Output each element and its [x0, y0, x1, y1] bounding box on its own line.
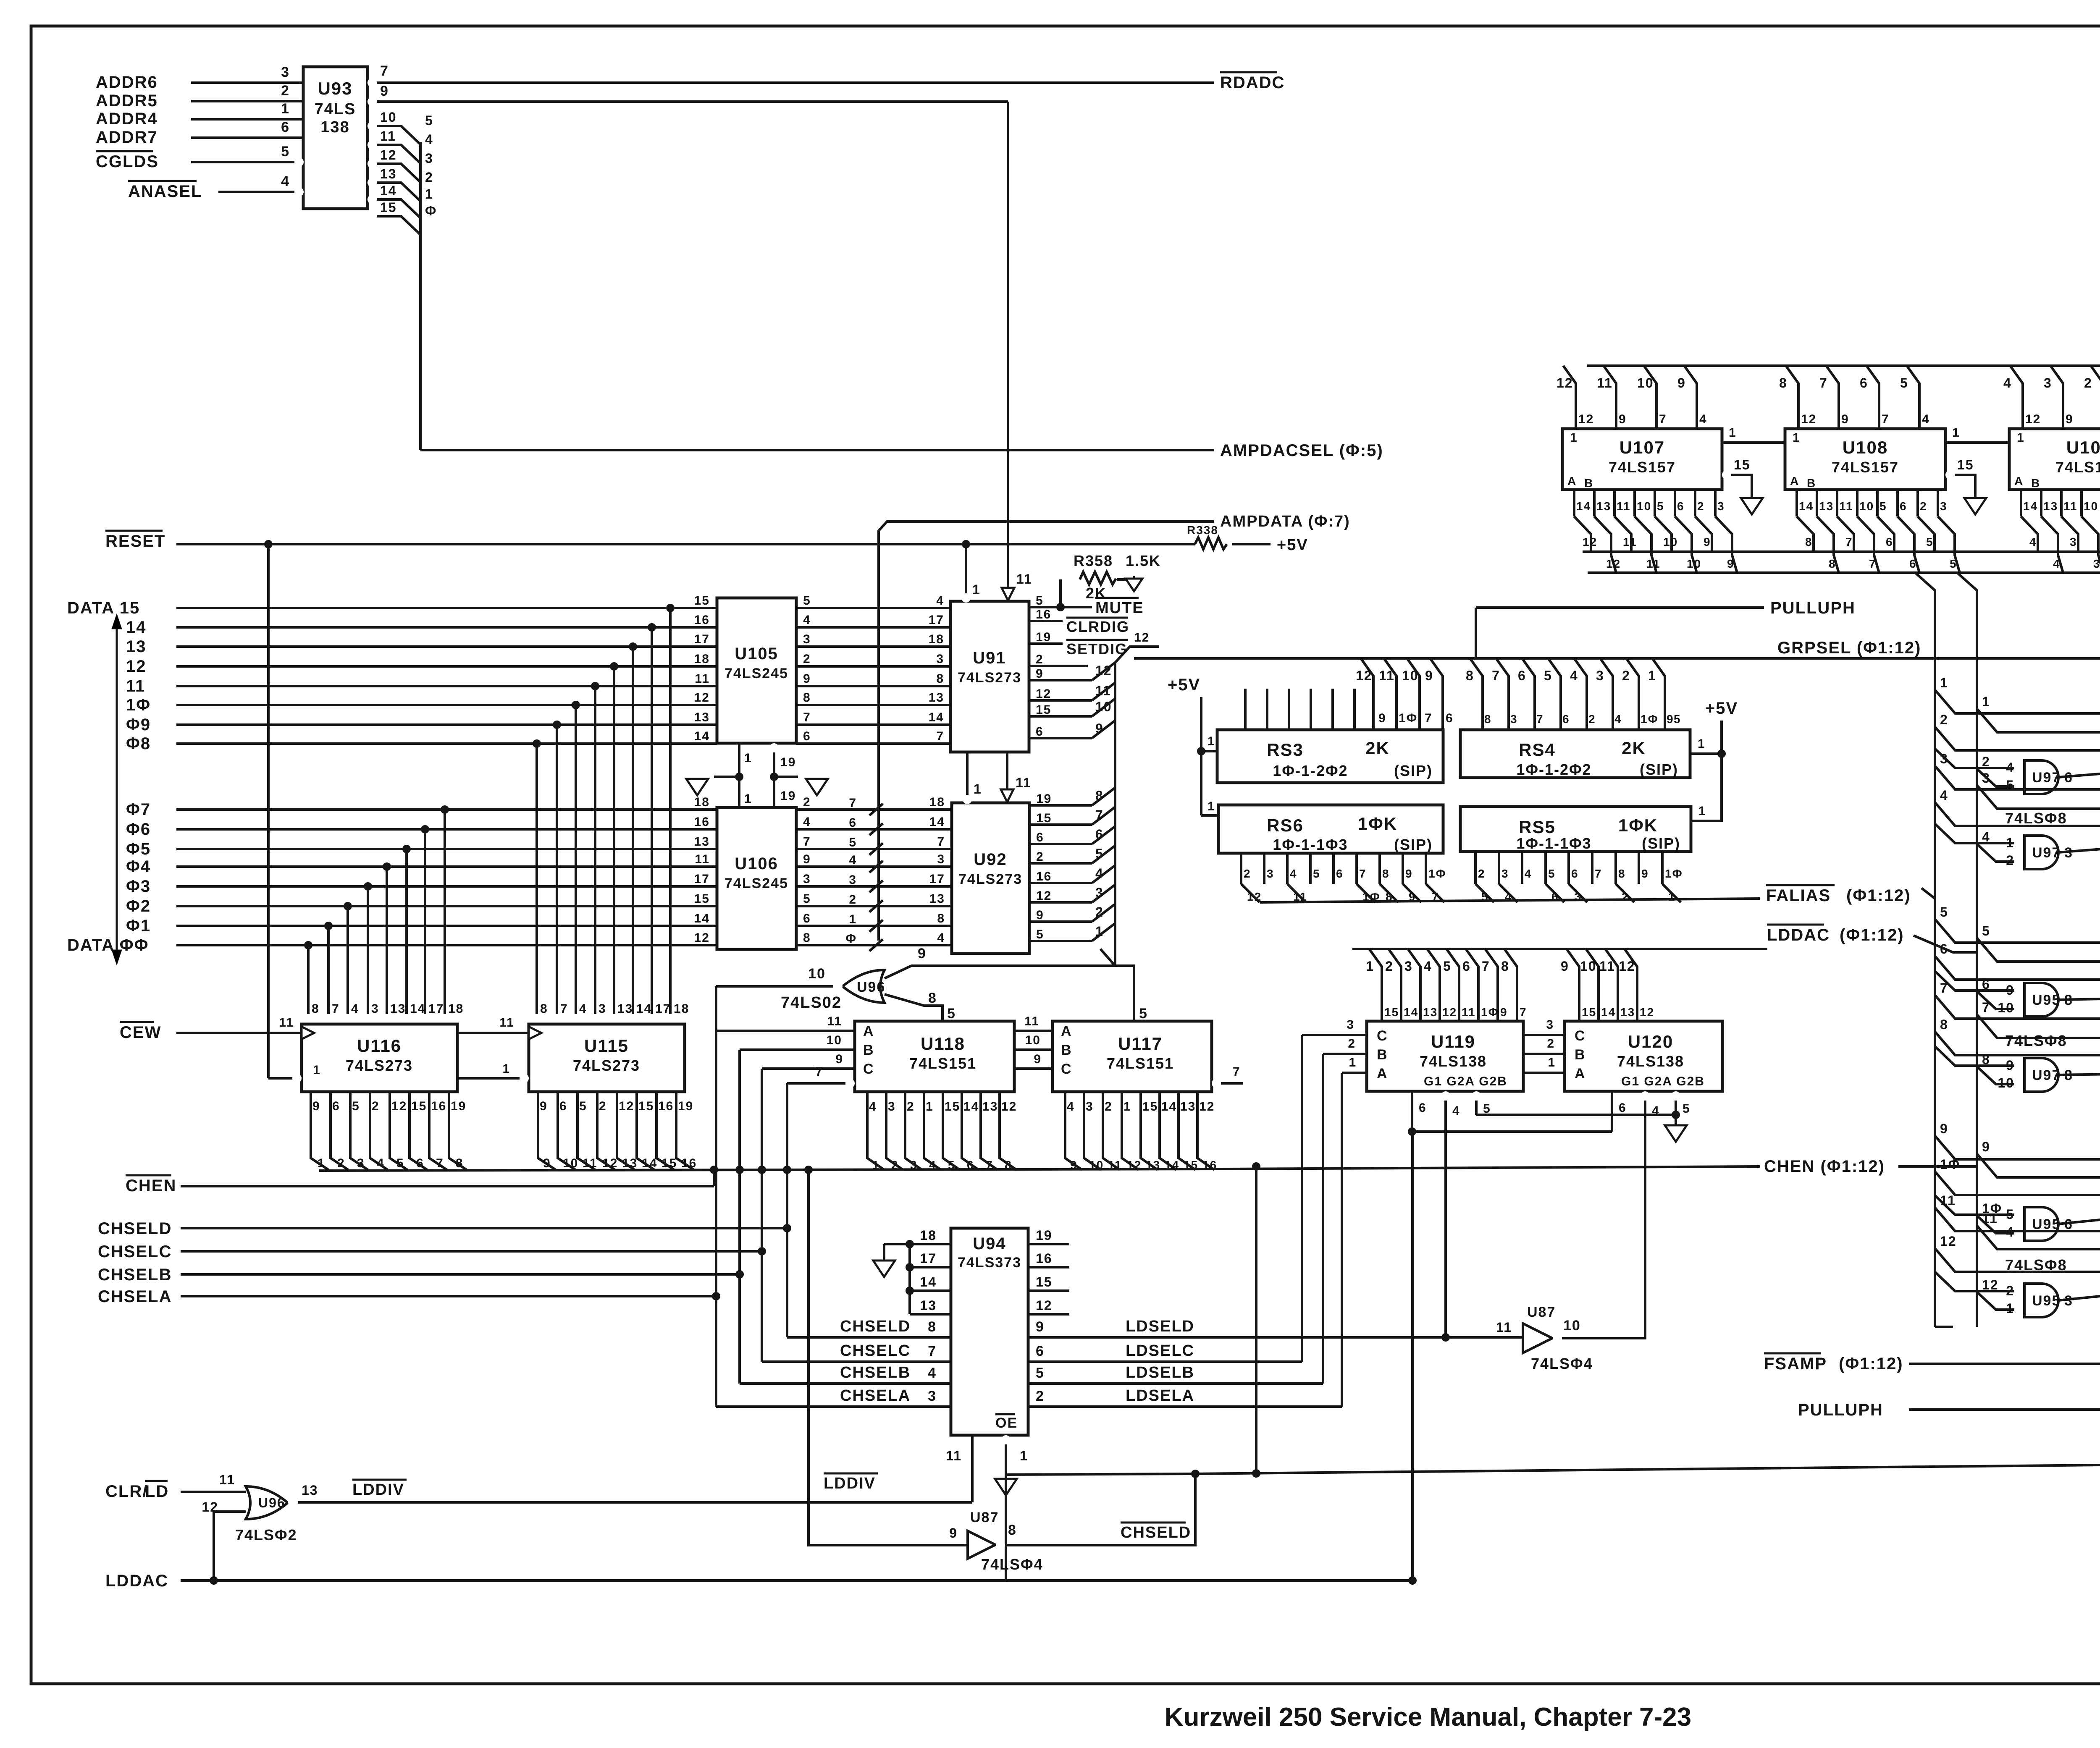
svg-text:1: 1	[849, 912, 857, 926]
wire DATA13 vertical drop	[632, 647, 634, 1014]
svg-text:5: 5	[1940, 904, 1948, 920]
wire U94 spare tie	[908, 1244, 911, 1314]
wire DATA15 horizontal	[176, 607, 717, 609]
svg-text:CLRDIG: CLRDIG	[1066, 618, 1129, 635]
svg-text:4: 4	[937, 931, 945, 945]
svg-text:4: 4	[2003, 375, 2012, 390]
svg-text:14: 14	[963, 1100, 979, 1114]
wire DATA3 horizontal	[176, 885, 717, 888]
U94 spare pins	[910, 1243, 951, 1245]
svg-text:11: 11	[1024, 1014, 1039, 1028]
svg-text:14: 14	[410, 1002, 425, 1016]
wire U106 pin 2 to U92	[796, 808, 952, 811]
svg-text:2K: 2K	[1365, 738, 1390, 758]
svg-text:15: 15	[1184, 1158, 1198, 1171]
svg-text:2K: 2K	[1622, 738, 1646, 758]
svg-text:3: 3	[1510, 713, 1518, 726]
svg-text:1Φ: 1Φ	[1399, 711, 1417, 725]
svg-text:9: 9	[312, 1099, 320, 1113]
svg-text:12: 12	[694, 931, 710, 945]
svg-text:9: 9	[1982, 1139, 1990, 1154]
svg-text:11: 11	[1646, 557, 1661, 570]
wire gate U95 inputs	[1935, 1195, 2014, 1215]
svg-text:AMPDACSEL (Φ:5): AMPDACSEL (Φ:5)	[1220, 441, 1383, 460]
svg-text:10: 10	[1637, 375, 1654, 390]
wire CGLDS to U93 pin 5	[294, 157, 304, 167]
svg-text:1: 1	[1548, 1056, 1556, 1069]
svg-text:1: 1	[972, 582, 981, 597]
svg-text:2: 2	[803, 795, 811, 809]
wire U117 output pin 7	[1212, 1079, 1221, 1088]
svg-text:74LS157: 74LS157	[2055, 459, 2100, 476]
svg-text:2: 2	[803, 652, 811, 666]
svg-text:1Φ-1-1Φ3: 1Φ-1-1Φ3	[1273, 836, 1348, 853]
gate U95 74LS08	[2024, 1207, 2058, 1241]
svg-text:5: 5	[1657, 500, 1664, 513]
svg-text:6: 6	[849, 816, 857, 830]
svg-text:10: 10	[1402, 668, 1419, 683]
svg-text:12: 12	[1095, 663, 1112, 678]
wire U105 pin 7 to U91	[796, 723, 950, 726]
wire phi12 R input	[1935, 1248, 2100, 1272]
svg-text:(Φ1:12): (Φ1:12)	[1840, 926, 1904, 944]
wire U91 pin 2	[1029, 665, 1088, 667]
wire U115 out 9	[538, 1092, 556, 1170]
junction DATA9	[553, 721, 561, 729]
svg-text:11: 11	[2063, 500, 2078, 513]
svg-text:13: 13	[390, 1002, 406, 1016]
svg-text:74LS245: 74LS245	[724, 875, 788, 891]
svg-text:9: 9	[1561, 959, 1569, 974]
IC U119 74LS138	[1367, 1021, 1523, 1091]
svg-text:15: 15	[1384, 1006, 1399, 1019]
svg-text:1: 1	[1982, 694, 1990, 709]
svg-text:U92: U92	[974, 850, 1007, 869]
svg-text:14: 14	[929, 815, 945, 829]
svg-text:3: 3	[281, 64, 290, 80]
junction riser C bus	[758, 1166, 766, 1174]
svg-text:6: 6	[1562, 713, 1570, 726]
svg-text:9: 9	[540, 1099, 548, 1113]
U119 G pins	[1411, 1091, 1413, 1132]
svg-text:12: 12	[2025, 412, 2041, 426]
svg-text:2: 2	[1095, 904, 1104, 920]
svg-text:7: 7	[1425, 711, 1433, 725]
svg-text:Φ2: Φ2	[126, 897, 151, 915]
svg-text:5: 5	[1900, 375, 1908, 390]
svg-text:2: 2	[1940, 712, 1948, 727]
svg-text:B: B	[1377, 1047, 1388, 1063]
svg-text:7: 7	[1359, 867, 1367, 880]
svg-text:8: 8	[456, 1156, 464, 1170]
svg-text:PULLUPH: PULLUPH	[1798, 1401, 1883, 1419]
svg-text:14: 14	[694, 912, 710, 925]
svg-text:U105: U105	[735, 645, 778, 663]
svg-text:13: 13	[1423, 1006, 1438, 1019]
wire phi6 R input	[1935, 956, 2100, 980]
svg-text:U97: U97	[2032, 845, 2061, 861]
svg-text:Φ4: Φ4	[126, 857, 151, 876]
svg-text:12: 12	[694, 691, 710, 705]
svg-text:A: A	[863, 1023, 874, 1039]
wire RESET	[176, 543, 1195, 545]
svg-text:7: 7	[1845, 535, 1853, 548]
svg-text:MUTE: MUTE	[1095, 599, 1144, 617]
svg-text:FSAMP: FSAMP	[1764, 1355, 1827, 1373]
svg-text:5: 5	[425, 113, 433, 128]
wire ADDR4 to U93 pin 1	[191, 118, 303, 121]
svg-text:1Φ: 1Φ	[1428, 867, 1446, 880]
wire DATA11 vertical drop	[594, 686, 596, 1014]
IC U93 74LS138	[303, 67, 367, 209]
svg-text:RDADC: RDADC	[1220, 73, 1285, 92]
svg-text:B: B	[1584, 477, 1593, 490]
svg-text:5: 5	[1544, 668, 1552, 683]
svg-text:1Φ: 1Φ	[126, 696, 151, 714]
svg-text:7: 7	[937, 835, 945, 849]
svg-text:R338: R338	[1187, 524, 1218, 537]
svg-text:2: 2	[1036, 850, 1044, 864]
wire CEW to U116	[176, 1032, 302, 1034]
svg-text:16: 16	[1036, 1251, 1053, 1266]
svg-text:6: 6	[967, 1158, 974, 1171]
svg-text:U94: U94	[973, 1234, 1006, 1253]
gate U95 74LS08	[2024, 983, 2058, 1017]
ground U120 G2B	[1675, 1115, 1677, 1124]
svg-text:6: 6	[1095, 827, 1104, 842]
wire phi9 S input	[1977, 1154, 2100, 1177]
svg-text:14: 14	[920, 1274, 937, 1289]
svg-text:5: 5	[948, 1158, 955, 1171]
wire CHEN continuation	[1226, 1166, 1760, 1169]
svg-text:17: 17	[929, 872, 945, 886]
svg-text:Φ5: Φ5	[126, 840, 151, 858]
wire SETDIG	[1029, 642, 1063, 645]
svg-text:12: 12	[1001, 1100, 1017, 1114]
wire U115 out 12	[617, 1092, 635, 1170]
IC U108 74LS157	[1785, 429, 1945, 490]
svg-text:RS5: RS5	[1519, 817, 1556, 837]
wire DATA11 horizontal	[176, 685, 717, 687]
svg-text:B: B	[1575, 1047, 1586, 1063]
svg-text:AMPDATA (Φ:7): AMPDATA (Φ:7)	[1220, 513, 1350, 530]
svg-text:2: 2	[337, 1156, 345, 1170]
wire DATA1 horizontal	[176, 925, 717, 927]
svg-text:(SIP): (SIP)	[1642, 835, 1680, 852]
svg-text:10: 10	[2084, 500, 2098, 513]
svg-text:8: 8	[1008, 1522, 1017, 1538]
svg-text:6: 6	[1518, 668, 1526, 683]
gate U95 74LS08	[2024, 1284, 2058, 1317]
svg-text:3: 3	[598, 1002, 606, 1016]
svg-text:18: 18	[929, 795, 945, 809]
wire gate U97 output to S input	[2058, 844, 2100, 852]
svg-text:4: 4	[281, 173, 290, 189]
svg-text:7: 7	[936, 729, 944, 743]
svg-text:1: 1	[313, 1063, 321, 1077]
svg-text:15: 15	[945, 1100, 960, 1114]
svg-text:6: 6	[1446, 711, 1454, 725]
svg-text:5: 5	[1443, 959, 1452, 974]
svg-text:4: 4	[377, 1156, 385, 1170]
svg-text:15: 15	[380, 200, 397, 215]
RS5 slant fan to FALIAS	[1475, 884, 1494, 902]
svg-text:1: 1	[1952, 426, 1960, 440]
svg-text:13: 13	[126, 637, 147, 656]
svg-text:5: 5	[281, 144, 290, 160]
junction DATA3	[364, 882, 372, 891]
wires U117 ABC from U118	[1014, 1030, 1053, 1032]
svg-text:OE: OE	[995, 1415, 1018, 1431]
wire DATA4 horizontal	[176, 865, 717, 868]
svg-text:1: 1	[318, 1156, 325, 1170]
svg-text:17: 17	[655, 1002, 671, 1016]
junction LDDAC	[210, 1576, 218, 1585]
svg-text:74LS273: 74LS273	[958, 670, 1021, 686]
svg-text:15: 15	[1036, 811, 1052, 825]
svg-text:CHSELA: CHSELA	[840, 1387, 911, 1405]
svg-text:2: 2	[891, 1158, 899, 1171]
svg-text:16: 16	[431, 1099, 446, 1113]
resistor network RS5 10K SIP	[1460, 807, 1691, 852]
svg-text:5: 5	[803, 594, 811, 608]
svg-text:7: 7	[1819, 375, 1828, 390]
svg-text:5: 5	[1313, 867, 1320, 880]
svg-text:+5V: +5V	[1168, 676, 1200, 694]
svg-text:6: 6	[803, 729, 811, 743]
svg-text:3: 3	[803, 872, 811, 886]
svg-text:9: 9	[1727, 557, 1735, 570]
svg-text:8: 8	[1779, 375, 1788, 390]
svg-text:6: 6	[1900, 500, 1907, 513]
svg-text:+5V: +5V	[1277, 536, 1308, 554]
bus LDDAC phi1-12	[1352, 948, 1767, 950]
svg-text:13: 13	[694, 710, 710, 724]
svg-text:9: 9	[1036, 1319, 1045, 1335]
svg-text:A: A	[2014, 474, 2024, 487]
riser U119 G1 to LDDAC	[1411, 1132, 1414, 1580]
svg-text:5: 5	[1548, 867, 1556, 880]
svg-text:13: 13	[302, 1483, 318, 1498]
wire DATA7 vertical drop	[444, 810, 446, 1014]
svg-text:3: 3	[1347, 1018, 1354, 1032]
svg-text:12: 12	[1801, 412, 1816, 426]
svg-text:19: 19	[1036, 792, 1052, 806]
svg-text:9: 9	[1095, 721, 1104, 736]
svg-text:1: 1	[1123, 1100, 1131, 1114]
svg-text:1: 1	[1366, 959, 1374, 974]
svg-text:CHSELC: CHSELC	[840, 1342, 911, 1360]
svg-text:4: 4	[1290, 867, 1297, 880]
junction DATA2	[344, 902, 352, 910]
junction DATA8	[533, 739, 541, 748]
svg-text:8: 8	[928, 990, 937, 1006]
svg-text:2: 2	[1622, 890, 1629, 903]
svg-text:Φ8: Φ8	[126, 734, 151, 753]
svg-text:6: 6	[1886, 535, 1893, 548]
svg-text:11: 11	[380, 128, 396, 144]
wire DATA4 vertical drop	[386, 867, 388, 1014]
svg-text:Kurzweil 250 Service Manual, C: Kurzweil 250 Service Manual, Chapter 7-2…	[1165, 1703, 1691, 1732]
svg-text:6: 6	[1909, 557, 1917, 570]
wire phi3 R input	[1935, 766, 2100, 789]
wire DATA0 vertical drop	[307, 945, 310, 1014]
svg-text:74LS373: 74LS373	[958, 1255, 1021, 1271]
svg-text:CHEN: CHEN	[126, 1177, 176, 1195]
svg-text:U91: U91	[973, 649, 1006, 667]
svg-text:LDSELD: LDSELD	[1126, 1318, 1194, 1335]
wire DATA12 horizontal	[176, 665, 717, 668]
gate U87 74LS04 bottom	[968, 1531, 995, 1559]
svg-text:15: 15	[1036, 703, 1051, 717]
U107 select pin 15 ground	[1722, 470, 1731, 480]
svg-text:74LS138: 74LS138	[1617, 1053, 1684, 1070]
svg-text:9: 9	[1641, 867, 1649, 880]
svg-text:DATA 15: DATA 15	[67, 599, 140, 617]
wire DATA14 horizontal	[176, 626, 717, 629]
svg-text:2: 2	[1244, 867, 1251, 880]
wire DATA15 vertical drop	[669, 608, 672, 1014]
svg-text:11: 11	[946, 1448, 962, 1463]
resistor network RS4 2K SIP	[1460, 730, 1690, 778]
svg-text:ADDR5: ADDR5	[96, 92, 158, 110]
svg-text:12: 12	[602, 1156, 618, 1170]
svg-text:CHSELB: CHSELB	[840, 1364, 911, 1381]
svg-text:(SIP): (SIP)	[1394, 762, 1433, 779]
riser bus to gates right	[1957, 573, 1977, 1327]
wire phi3 S input	[1977, 785, 2100, 809]
svg-text:11: 11	[1597, 375, 1613, 390]
svg-text:1Φ: 1Φ	[1940, 1157, 1960, 1172]
svg-text:A: A	[1061, 1023, 1072, 1039]
svg-text:10: 10	[1637, 500, 1651, 513]
svg-text:5: 5	[1982, 923, 1990, 938]
wire U96 input pin 9 from U117 Y	[885, 966, 1134, 1021]
wire U106 pin 6 to U92	[796, 925, 952, 927]
svg-text:7: 7	[1482, 959, 1490, 974]
wire RESET to U91 clock	[965, 544, 967, 596]
svg-text:18: 18	[694, 652, 710, 666]
svg-text:4: 4	[2053, 557, 2061, 570]
svg-text:13: 13	[1146, 1158, 1160, 1171]
svg-text:6: 6	[1677, 500, 1685, 513]
riser CHEN to CHSELD-bar line	[1252, 1162, 1260, 1171]
wire CHSELA to U94	[716, 1405, 951, 1408]
svg-text:ADDR4: ADDR4	[96, 110, 158, 128]
svg-text:14: 14	[1799, 500, 1814, 513]
DATA bus vertical span arrow	[116, 626, 118, 953]
svg-text:6: 6	[1036, 831, 1044, 844]
wire DATA6 horizontal	[176, 828, 717, 831]
svg-text:CEW: CEW	[120, 1023, 161, 1042]
wire U116 out 12	[390, 1092, 407, 1170]
svg-text:U107: U107	[1620, 438, 1665, 457]
wire DATA5 vertical drop	[405, 849, 408, 1014]
svg-text:G1 G2A G2B: G1 G2A G2B	[1621, 1074, 1705, 1088]
svg-text:SETDIG: SETDIG	[1066, 640, 1128, 658]
svg-text:16: 16	[658, 1099, 674, 1113]
junction DATA15	[666, 604, 675, 612]
svg-text:CHSELC: CHSELC	[98, 1242, 172, 1261]
svg-text:9: 9	[1034, 1052, 1042, 1066]
svg-text:7: 7	[1882, 412, 1890, 426]
svg-text:12: 12	[1127, 1158, 1142, 1171]
svg-text:LDDIV: LDDIV	[824, 1475, 876, 1492]
svg-text:3: 3	[1717, 500, 1725, 513]
IC U91 74LS273	[950, 601, 1029, 752]
svg-text:6: 6	[1571, 867, 1579, 880]
svg-text:14: 14	[1404, 1006, 1418, 1019]
junction DATA10	[572, 701, 580, 709]
wire U108 pin1 chain	[1945, 441, 2009, 444]
svg-text:(SIP): (SIP)	[1394, 836, 1433, 853]
wire CHSELD	[181, 1227, 787, 1229]
svg-text:9: 9	[1841, 412, 1849, 426]
svg-text:2: 2	[1478, 867, 1486, 880]
svg-text:11: 11	[1016, 775, 1032, 790]
svg-text:3: 3	[910, 1158, 918, 1171]
wire CHSELD-bar long	[1195, 1460, 2100, 1474]
svg-text:17: 17	[428, 1002, 444, 1016]
bus AMPDATA	[879, 522, 1214, 941]
U117 bottom fan	[1065, 1092, 1082, 1170]
svg-text:ADDR7: ADDR7	[96, 128, 158, 147]
svg-text:11: 11	[1462, 1006, 1476, 1019]
svg-text:13: 13	[1819, 500, 1834, 513]
svg-text:7: 7	[803, 835, 811, 849]
svg-text:11: 11	[695, 672, 710, 686]
svg-text:3: 3	[1940, 751, 1948, 766]
wire U96 output pin 10	[716, 985, 833, 988]
wire DATA9 horizontal	[176, 723, 717, 726]
svg-text:1Φ: 1Φ	[1481, 1006, 1499, 1019]
svg-text:11: 11	[1623, 535, 1637, 548]
wire U105 pin 3 to U91	[796, 645, 950, 648]
svg-text:3: 3	[1404, 959, 1413, 974]
junction DATA0	[304, 941, 312, 949]
svg-text:13: 13	[982, 1100, 998, 1114]
svg-text:PULLUPH: PULLUPH	[1770, 599, 1856, 617]
bus ribbon U91 outputs	[1029, 679, 1092, 681]
wire U106 pin 8 to U92	[796, 944, 952, 946]
svg-text:3: 3	[2070, 535, 2077, 548]
junction DATA14	[648, 623, 656, 632]
svg-text:1: 1	[744, 751, 752, 765]
svg-text:LDSELA: LDSELA	[1126, 1387, 1194, 1405]
svg-text:2: 2	[2084, 375, 2092, 390]
wire LDSELA	[1028, 1405, 1342, 1408]
RS4 top fan	[1470, 658, 1483, 730]
svg-text:8: 8	[937, 912, 945, 925]
svg-text:9: 9	[1405, 867, 1413, 880]
svg-text:12: 12	[1940, 1234, 1957, 1249]
U108 bottom pins	[1795, 490, 1798, 516]
U92 clock clear pins	[963, 795, 972, 804]
resistor network RS6 10K SIP	[1218, 805, 1443, 853]
svg-text:1Φ-1-2Φ2: 1Φ-1-2Φ2	[1273, 762, 1348, 779]
resistor R358	[1060, 606, 1079, 608]
svg-text:RS6: RS6	[1267, 815, 1304, 835]
gate U87 74LS04 mid	[1523, 1323, 1552, 1353]
riser CHSELD to U118 G and U94	[783, 1224, 791, 1232]
svg-text:16: 16	[681, 1156, 697, 1170]
wire DATA6 vertical drop	[424, 829, 426, 1014]
svg-text:4: 4	[928, 1365, 937, 1381]
RS3 top fan	[1361, 658, 1373, 730]
svg-text:10: 10	[808, 966, 826, 982]
svg-text:2: 2	[907, 1100, 915, 1114]
svg-text:7: 7	[332, 1002, 340, 1016]
